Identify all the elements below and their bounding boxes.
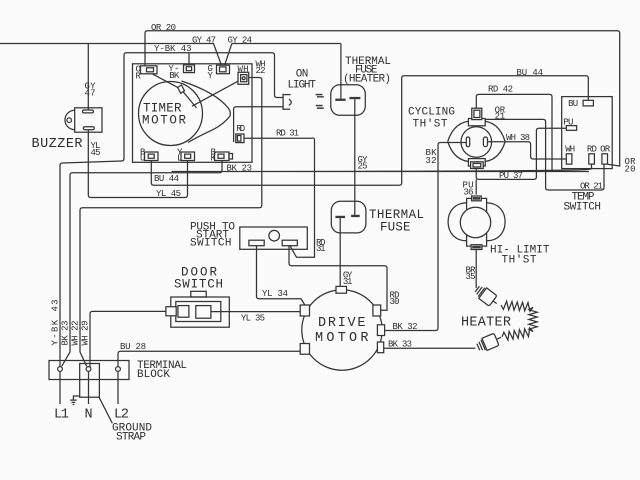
- svg-text:36: 36: [464, 188, 474, 198]
- svg-text:BU 28: BU 28: [120, 342, 146, 352]
- svg-text:BK 32: BK 32: [393, 322, 418, 332]
- svg-text:WH: WH: [238, 64, 249, 74]
- svg-text:(HEATER): (HEATER): [343, 74, 391, 86]
- svg-text:Y-BK 43: Y-BK 43: [51, 300, 61, 346]
- svg-text:RD: RD: [236, 124, 245, 134]
- svg-text:BK 23: BK 23: [227, 164, 253, 174]
- svg-text:LIGHT: LIGHT: [288, 80, 317, 92]
- svg-text:BLOCK: BLOCK: [137, 369, 170, 381]
- svg-text:R: R: [136, 72, 142, 82]
- svg-text:HEATER: HEATER: [461, 316, 511, 331]
- svg-text:WH 29: WH 29: [81, 321, 91, 346]
- svg-text:STRAP: STRAP: [116, 431, 146, 443]
- svg-text:BUZZER: BUZZER: [32, 137, 83, 152]
- svg-text:BU 44: BU 44: [154, 174, 179, 184]
- svg-text:N: N: [85, 407, 93, 422]
- svg-text:TH'ST: TH'ST: [502, 254, 537, 266]
- svg-text:BK 33: BK 33: [388, 340, 412, 350]
- svg-text:WH 38: WH 38: [506, 133, 530, 143]
- svg-text:30: 30: [390, 297, 400, 307]
- svg-text:SWITCH: SWITCH: [174, 277, 223, 291]
- svg-text:OR: OR: [600, 144, 611, 154]
- svg-text:31: 31: [343, 277, 353, 287]
- svg-text:PU 37: PU 37: [499, 171, 523, 181]
- svg-text:20: 20: [625, 165, 636, 175]
- svg-text:WH: WH: [565, 144, 575, 154]
- svg-text:K: K: [211, 154, 217, 164]
- svg-text:32: 32: [426, 156, 437, 166]
- svg-text:GY 47: GY 47: [192, 36, 216, 46]
- svg-text:25: 25: [358, 162, 368, 172]
- svg-text:35: 35: [466, 272, 476, 282]
- svg-text:RD 42: RD 42: [488, 85, 513, 95]
- svg-text:RD 31: RD 31: [276, 129, 299, 139]
- svg-text:BU 44: BU 44: [517, 68, 544, 78]
- svg-text:OR 20: OR 20: [151, 23, 176, 33]
- svg-text:45: 45: [91, 148, 101, 158]
- svg-text:MOTOR: MOTOR: [315, 331, 369, 346]
- svg-text:22: 22: [256, 66, 266, 76]
- svg-text:GY 24: GY 24: [228, 36, 253, 46]
- svg-text:47: 47: [85, 89, 96, 99]
- svg-text:Y: Y: [208, 71, 214, 81]
- svg-text:YL 34: YL 34: [262, 289, 288, 299]
- svg-text:FUSE: FUSE: [380, 221, 411, 235]
- svg-text:DRIVE: DRIVE: [318, 316, 366, 331]
- svg-text:BK 23: BK 23: [61, 321, 71, 346]
- svg-text:L2: L2: [114, 407, 129, 422]
- svg-text:L1: L1: [54, 407, 69, 422]
- svg-text:OR 21: OR 21: [580, 182, 603, 192]
- svg-text:BK: BK: [169, 71, 180, 81]
- svg-text:U: U: [140, 154, 145, 164]
- svg-text:Y-BK 43: Y-BK 43: [154, 44, 192, 54]
- svg-text:YL 35: YL 35: [241, 313, 265, 323]
- svg-text:BU: BU: [568, 99, 578, 109]
- svg-text:31: 31: [316, 244, 326, 254]
- svg-text:TH'ST: TH'ST: [413, 119, 448, 131]
- svg-text:CYCLING: CYCLING: [408, 107, 455, 119]
- svg-text:PU: PU: [563, 117, 573, 127]
- svg-text:SWITCH: SWITCH: [564, 201, 602, 213]
- svg-text:RD: RD: [587, 144, 597, 154]
- svg-text:MOTOR: MOTOR: [142, 113, 186, 127]
- svg-text:WH 22: WH 22: [71, 321, 81, 346]
- svg-text:YL 45: YL 45: [156, 189, 181, 199]
- svg-text:L: L: [177, 154, 182, 164]
- svg-text:SWITCH: SWITCH: [190, 237, 232, 249]
- svg-text:21: 21: [495, 112, 506, 122]
